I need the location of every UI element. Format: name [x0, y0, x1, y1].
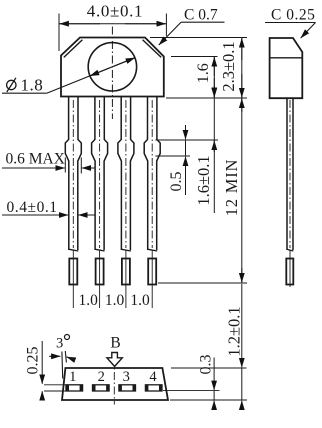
pin 1 pad	[66, 385, 83, 391]
dim 1.6 (chamfer depth) extension	[171, 56, 218, 58]
12 MIN bottom extension	[158, 282, 247, 284]
svg-text:2: 2	[98, 369, 105, 385]
svg-text:B: B	[110, 335, 120, 352]
dim 12 MIN	[241, 98, 243, 283]
hole circle	[88, 43, 136, 91]
svg-text:0.5: 0.5	[168, 172, 185, 192]
svg-text:2.3±0.1: 2.3±0.1	[219, 41, 238, 91]
degree symbol of 3deg	[65, 335, 70, 340]
right chamfer inner line	[143, 40, 162, 58]
svg-text:1.0: 1.0	[79, 292, 99, 309]
svg-text:0.25: 0.25	[25, 347, 42, 375]
dia text underline	[2, 92, 47, 94]
svg-text:12 MIN: 12 MIN	[222, 159, 241, 217]
svg-text:1: 1	[69, 369, 76, 385]
svg-text:1.2±0.1: 1.2±0.1	[225, 306, 244, 356]
svg-text:3: 3	[56, 336, 63, 352]
bottom view centerline	[113, 358, 115, 405]
leader C0.7	[181, 21, 225, 23]
pin 3 pad	[119, 385, 136, 391]
svg-text:0.3: 0.3	[198, 355, 215, 375]
svg-text:1.0: 1.0	[105, 292, 125, 309]
svg-text:0.4±0.1: 0.4±0.1	[7, 199, 58, 216]
pin 4 pad	[145, 385, 162, 391]
svg-text:4.0±0.1: 4.0±0.1	[87, 2, 143, 21]
bottom view body outline	[62, 368, 168, 400]
dim 4.0+-0.1	[58, 14, 60, 52]
svg-text:1.6: 1.6	[195, 63, 212, 83]
dim 0.25 (pad thickness)	[44, 384, 66, 386]
dim 2.3+-0.1	[150, 37, 247, 39]
view B arrow	[107, 353, 122, 367]
vertical centerline front	[111, 27, 113, 120]
side lead	[286, 99, 288, 251]
dia symbol	[7, 80, 16, 89]
lead 1	[65, 97, 69, 250]
dim 1.2+-0.1	[171, 367, 247, 369]
svg-text:1.6±0.1: 1.6±0.1	[194, 155, 213, 205]
package body side outline	[270, 38, 303, 98]
svg-text:1.8: 1.8	[21, 76, 44, 95]
dim 1.6+-0.1 (body to bulge)	[213, 86, 215, 97]
side mold step line	[270, 57, 303, 59]
lead 4	[144, 97, 148, 250]
package body front outline	[61, 38, 164, 97]
svg-text:0.6 MAX: 0.6 MAX	[6, 151, 65, 168]
dim 0.4+-0.1	[2, 214, 68, 216]
C 0.25 label underline and leader	[265, 22, 316, 24]
dim 0.5 (bulge)	[155, 139, 218, 141]
3 deg draft angle lines	[61, 352, 64, 379]
svg-text:C 0.7: C 0.7	[184, 6, 218, 23]
svg-text:C 0.25: C 0.25	[271, 7, 315, 24]
svg-text:4: 4	[149, 369, 157, 385]
dim 0.3	[163, 390, 220, 392]
svg-text:3: 3	[123, 369, 130, 385]
lead 3	[118, 97, 122, 250]
dim 0.6 MAX	[64, 158, 66, 173]
pin 2 pad	[93, 385, 110, 391]
dia leader line	[47, 58, 135, 93]
svg-text:1.0: 1.0	[130, 292, 150, 309]
lead 2	[92, 97, 96, 250]
left chamfer inner line	[64, 40, 83, 58]
